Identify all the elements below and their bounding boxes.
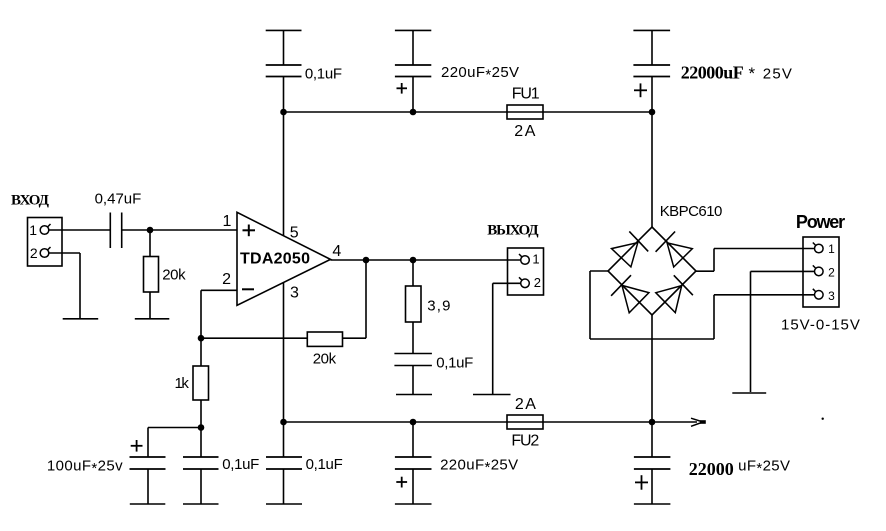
svg-text:0,1uF: 0,1uF [222,456,259,473]
svg-text:KBPC610: KBPC610 [660,203,722,220]
svg-text:15V-0-15V: 15V-0-15V [781,317,861,334]
svg-text:100uF*25v: 100uF*25v [47,458,123,478]
svg-text:0,47uF: 0,47uF [95,191,142,208]
svg-text:2A: 2A [514,123,537,140]
svg-text:20k: 20k [313,351,337,368]
svg-text:5: 5 [290,225,299,242]
svg-text:TDA2050: TDA2050 [240,251,310,268]
svg-text:ВХОД: ВХОД [11,193,50,209]
svg-text:220uF*25V: 220uF*25V [440,457,518,477]
svg-text:3: 3 [290,284,299,301]
svg-text:2A: 2A [515,396,538,413]
svg-text:0,1uF: 0,1uF [305,66,342,83]
svg-text:2: 2 [828,265,835,279]
svg-text:FU1: FU1 [512,86,540,103]
svg-text:1: 1 [222,213,231,230]
svg-text:3,9: 3,9 [427,298,451,315]
svg-text:2: 2 [534,275,541,290]
svg-text:1: 1 [828,242,835,256]
svg-text:3: 3 [828,289,835,303]
svg-text:20k: 20k [162,267,186,284]
svg-text:22000uF: 22000uF [681,63,744,83]
svg-text:FU2: FU2 [511,433,539,450]
svg-text:22000: 22000 [689,459,734,479]
svg-text:2: 2 [222,271,231,288]
svg-text:1: 1 [29,222,37,238]
svg-text:*: * [749,64,756,83]
svg-text:ВЫХОД: ВЫХОД [487,223,539,239]
svg-text:1k: 1k [175,375,190,392]
svg-text:0,1uF: 0,1uF [306,456,343,473]
svg-text:2: 2 [30,245,38,261]
svg-text:0,1uF: 0,1uF [436,355,473,372]
svg-text:Power: Power [796,212,845,232]
svg-text:uF*25V: uF*25V [738,458,790,478]
svg-text:4: 4 [332,243,341,260]
svg-text:25V: 25V [763,66,793,83]
svg-text:1: 1 [532,252,539,267]
svg-text:220uF*25V: 220uF*25V [441,64,519,84]
